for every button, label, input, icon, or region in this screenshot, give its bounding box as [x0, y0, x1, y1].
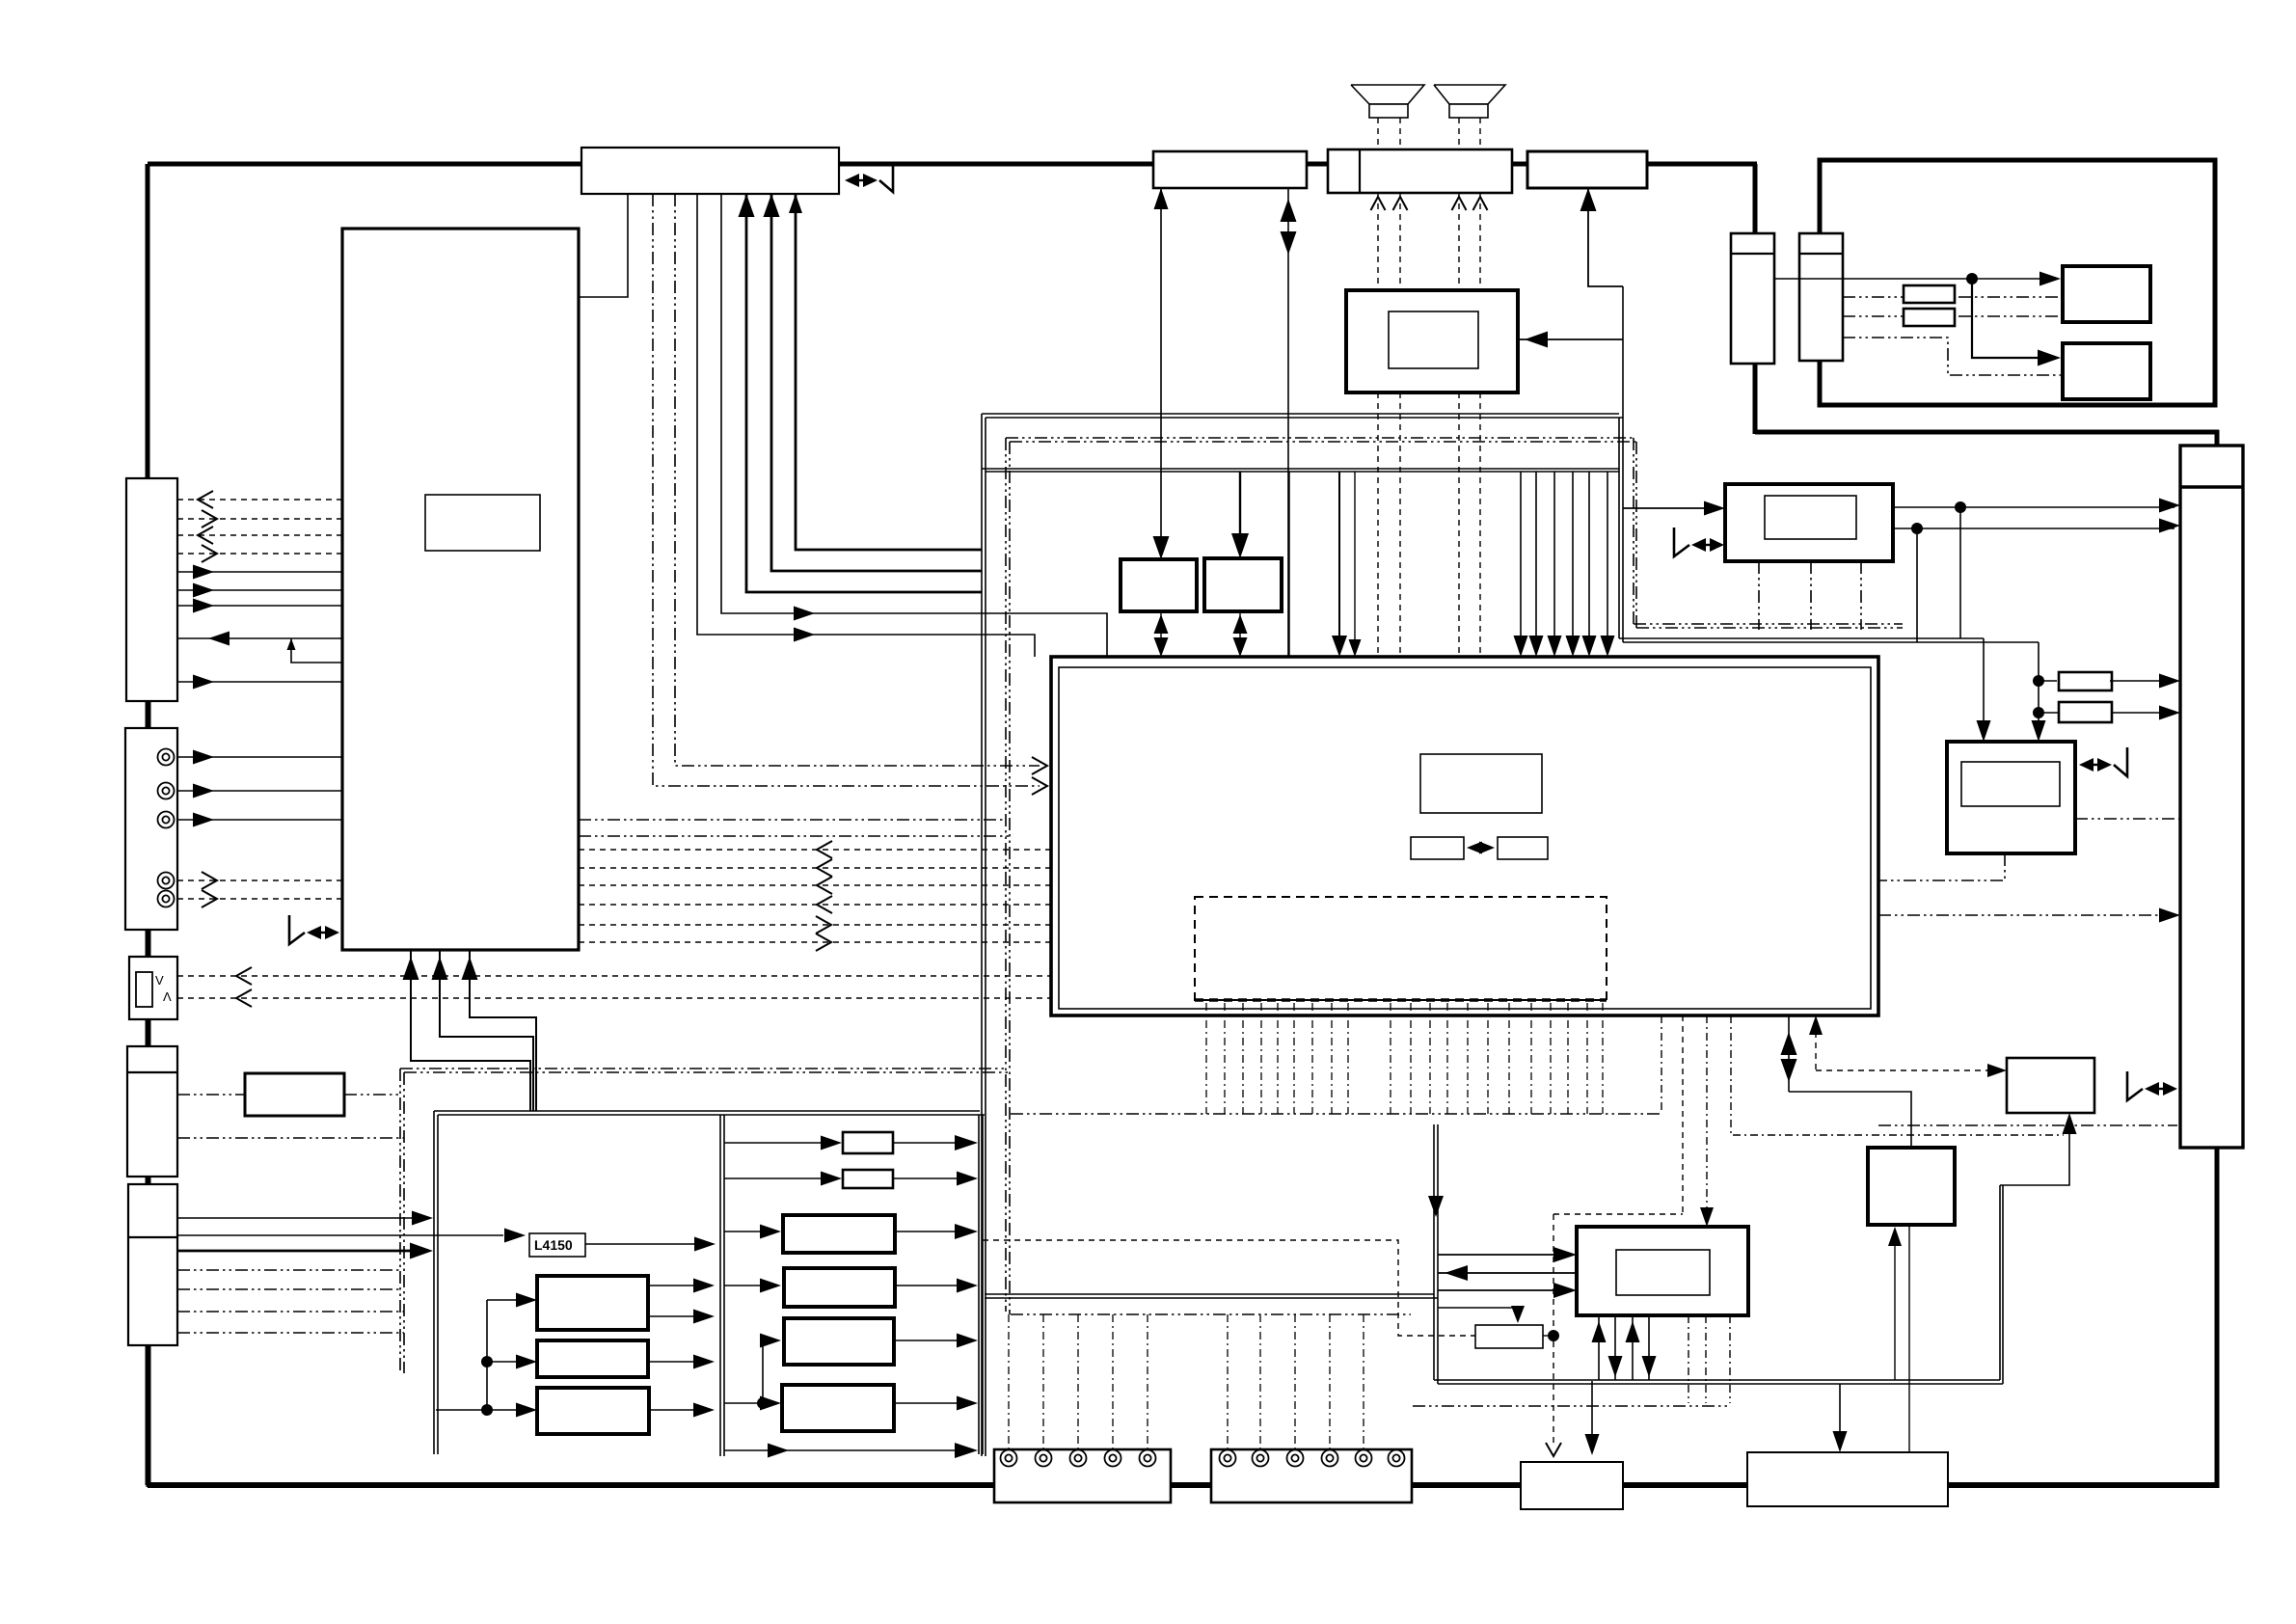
power right bus a — [978, 1115, 980, 1454]
arrow into box E — [1704, 501, 1725, 516]
power section top b — [438, 1114, 985, 1116]
sound bus pair b — [1437, 1124, 1439, 1384]
main IC inner — [1059, 667, 1871, 1009]
wire into U6 right — [1518, 338, 1623, 340]
arrow into r1 — [821, 1136, 842, 1150]
arrow up into U3 — [1154, 188, 1169, 209]
dot E out 2 — [1911, 523, 1923, 534]
IC pin drop 1483 — [1429, 1003, 1431, 1114]
solid bus vertical 1683 — [1622, 286, 1624, 642]
open arrow y938 — [817, 896, 832, 913]
arrow into mD — [760, 1396, 781, 1411]
TB2 terminal 6 — [1389, 1450, 1405, 1467]
terminal drop left 1118 — [1077, 1314, 1079, 1449]
box D — [2063, 343, 2150, 399]
drop 1667 into main box — [1607, 472, 1608, 650]
amp riser a — [1999, 1185, 2001, 1380]
main IC dashed subrect — [1195, 897, 1607, 1000]
open arrow y959 — [816, 916, 831, 934]
dashed riser H — [1816, 1069, 2000, 1071]
power section top a — [434, 1110, 980, 1112]
arrow 1389 into main box — [1332, 636, 1347, 657]
J-rail arrow 1 — [1598, 1315, 1600, 1380]
dashed K2 to dot — [1543, 1335, 1553, 1337]
open arrow up a — [1371, 197, 1386, 210]
connector CN2 — [125, 728, 177, 930]
small rect R2 — [1904, 309, 1955, 326]
F2 arrows — [1233, 614, 1248, 634]
wire U3 down 2 with double arrow — [1287, 188, 1289, 657]
svg-text:L4150: L4150 — [534, 1237, 573, 1253]
thick drop 1389 — [1338, 472, 1340, 650]
outer frame bottom edge — [148, 1482, 2219, 1488]
dashed vert to L — [1553, 1214, 1554, 1447]
arrow 662 left — [208, 632, 230, 646]
TB2 terminal 4 — [1322, 1450, 1338, 1467]
open arrow y918 — [817, 877, 832, 894]
frame gap CN3-CN4 — [147, 1177, 151, 1184]
CN2 terminal 4 — [158, 873, 175, 889]
G feed rail lower — [1623, 641, 2039, 643]
open arrow up d — [1473, 197, 1488, 210]
arrow up into U1 pin8 — [789, 194, 802, 213]
CN2 terminal 2 — [158, 783, 175, 799]
wire U1 pin5 — [721, 194, 1107, 657]
dashed subrect bottom heavy — [1195, 998, 1607, 1002]
arrow into mC — [760, 1334, 781, 1348]
arrow into box C — [2039, 272, 2061, 286]
F2 dashdot updown — [1239, 611, 1241, 654]
box U1 top-left control — [581, 148, 839, 194]
frame below CN4 — [147, 1345, 151, 1487]
dashdot left horiz b — [579, 835, 1010, 837]
TB1 terminal 1 — [1001, 1450, 1017, 1467]
drop 1577 into main box — [1520, 472, 1522, 650]
speaker SP1 horn — [1351, 85, 1424, 104]
dashed drops below box5 c — [1458, 392, 1460, 657]
small box K2 — [1475, 1325, 1543, 1348]
regulator mC — [784, 1318, 894, 1365]
mD out — [894, 1402, 972, 1404]
resistor R3 — [2059, 672, 2112, 690]
CN2 terminal 3 — [158, 812, 175, 828]
TB2 terminal 2 — [1253, 1450, 1269, 1467]
CN3 divider — [127, 1071, 177, 1073]
dot mD — [757, 1397, 769, 1409]
power section left a — [433, 1111, 435, 1454]
adjust symbol at U1 right — [845, 174, 859, 187]
box E — [1725, 484, 1893, 561]
IC pin drop 1608 — [1550, 1003, 1552, 1114]
arrow 612 — [193, 583, 214, 598]
regulator r1 — [843, 1132, 893, 1153]
IC pin drop 1662 — [1602, 1003, 1604, 1114]
arrow up into U1 pin7 — [764, 194, 780, 217]
terminal drop left 1190 — [1147, 1314, 1148, 1449]
arrow E out 2 — [2159, 519, 2180, 533]
outer frame right horizontal — [1755, 430, 2219, 435]
dashdot left horiz a — [579, 819, 1006, 821]
PS1 out a — [648, 1285, 708, 1286]
vertical bus 1022 — [985, 418, 986, 1456]
box U3 key input — [1153, 151, 1307, 188]
updown arrow up — [1781, 1032, 1797, 1055]
box G inner — [1961, 762, 2060, 806]
arrow 1297 — [410, 1243, 433, 1259]
frame gap CN2-VA — [147, 930, 151, 957]
dashdot pair horiz b — [404, 1071, 1009, 1073]
power box PS3 — [537, 1388, 649, 1434]
thin drop 1405 — [1354, 472, 1356, 650]
open arrow up b — [1393, 197, 1408, 210]
tuner box B — [1799, 233, 1843, 361]
CN4 divider — [128, 1236, 177, 1238]
frame gap VA-CN3 — [147, 1019, 151, 1046]
CN4 wire 1 — [177, 1217, 426, 1219]
dashdot pair vert a — [1633, 438, 1634, 624]
rail 486 — [982, 468, 1619, 470]
connector CN4 — [128, 1184, 177, 1345]
dashed bus line y918 — [579, 884, 1051, 886]
wire to amp 1 — [1438, 1254, 1570, 1256]
U2 inner label rect — [425, 495, 540, 551]
speaker SP2 body — [1449, 104, 1488, 118]
dashdot pair horiz a — [400, 1068, 1005, 1069]
arrow into mB — [760, 1279, 781, 1293]
IC pin drop 1398 — [1347, 1003, 1349, 1114]
arrow PS2 — [693, 1355, 715, 1369]
IC pin drop 1342 — [1293, 1003, 1295, 1114]
arrow 1405 into main box — [1349, 639, 1362, 657]
thin drop 1337 — [1288, 472, 1290, 657]
TB1 terminal 5 — [1140, 1450, 1156, 1467]
dashed drops below box5 b — [1399, 392, 1401, 657]
arrow 820 — [193, 784, 214, 798]
sensor box VA — [129, 957, 177, 1019]
open arrow y881 — [817, 841, 832, 858]
J below dashdot 1 — [1688, 1315, 1689, 1403]
dashed bus line y900 — [579, 867, 1051, 869]
svg-text:V: V — [155, 973, 164, 988]
dashdot bus A — [1011, 1113, 1661, 1115]
terminal drop right 1343 — [1294, 1314, 1296, 1449]
open arrow left 555 — [198, 527, 213, 544]
box G dashdot bottom — [1878, 853, 2005, 880]
wire CN2 b — [177, 790, 342, 792]
arrow 593 — [193, 565, 214, 580]
open arrow into L — [1546, 1443, 1561, 1456]
arrow mA out — [955, 1224, 978, 1239]
arrow R3 to bus — [2159, 674, 2180, 689]
dot E out 1 — [1955, 501, 1966, 513]
CN4 dashdot 2 — [177, 1288, 400, 1290]
connector CN3 — [127, 1046, 177, 1177]
dashdot pair vertical a — [399, 1069, 401, 1373]
r1 out — [893, 1142, 972, 1144]
IC pin drop 1270 — [1224, 1003, 1226, 1114]
arrow up into U5 — [1580, 188, 1597, 211]
arrowhead on wire 636 — [794, 607, 815, 621]
box L wire — [1591, 1381, 1593, 1448]
box M wire — [1839, 1384, 1841, 1446]
CN4 wire L4150 — [177, 1234, 503, 1236]
wire from amp 2 — [1438, 1272, 1577, 1274]
arrow into box H left — [1987, 1064, 2007, 1077]
terminal drop right 1307 — [1259, 1314, 1261, 1449]
arrow into mA — [760, 1225, 781, 1239]
wire CN1 s2 — [177, 589, 342, 591]
box G dashdot right — [2075, 818, 2179, 820]
J-rail arrow 2 — [1614, 1315, 1616, 1380]
arrow into PS1 — [516, 1293, 537, 1308]
box U5 right of speakers — [1527, 151, 1647, 188]
TB2 terminal 3 — [1287, 1450, 1304, 1467]
J-rail arrow 4 — [1648, 1315, 1650, 1380]
dashdot bus B — [1011, 1313, 1411, 1315]
frame stub above CN9 — [2215, 430, 2220, 447]
open arrow y977 — [816, 934, 831, 951]
branch jog to 687 — [291, 638, 342, 663]
CN3 dashdot lower — [177, 1137, 404, 1139]
wire to K2 — [1438, 1308, 1518, 1317]
rail 433 — [986, 417, 1623, 419]
IC pin drop 1251 — [1205, 1003, 1207, 1114]
arrow 1648 — [1582, 636, 1597, 657]
dot R4 feed — [2033, 707, 2044, 718]
speaker SP1 body — [1369, 104, 1408, 118]
arrow dashdot 949 — [2159, 908, 2180, 923]
power-sound rail b — [985, 1297, 1438, 1299]
box K line dashdot right — [344, 1094, 400, 1096]
mC out — [894, 1340, 972, 1341]
frame below CN9 — [2215, 1148, 2220, 1488]
VA dashed out 2 — [177, 997, 1051, 999]
L4150 box — [529, 1233, 585, 1257]
open arrow into main IC at 794 — [1032, 757, 1047, 774]
wire CN1 s5 — [177, 681, 342, 683]
arrow into L4150 — [504, 1229, 526, 1243]
wire CN1 dashed 3 — [177, 534, 342, 536]
CN2 terminal 5 — [158, 891, 175, 907]
IC pin drop 1543 — [1487, 1003, 1489, 1114]
wire CN1 s3 — [177, 605, 342, 607]
small arrow up at branch — [287, 638, 296, 650]
dashed riser H vert — [1815, 1021, 1817, 1070]
double arrow down — [1281, 231, 1297, 255]
tuner A divider — [1731, 253, 1774, 255]
CN4 dashdot 3 — [177, 1311, 404, 1313]
drop 1631 into main box — [1572, 472, 1574, 650]
arrow into U6 — [1525, 332, 1548, 348]
F1 arrows — [1154, 614, 1169, 634]
terminal drop right 1414 — [1363, 1314, 1364, 1449]
bidir arrows between — [1467, 842, 1482, 854]
IC pin drop 1501 — [1446, 1003, 1448, 1114]
TB2 terminal 1 — [1220, 1450, 1236, 1467]
open arrow up c — [1452, 197, 1467, 210]
U4 divider — [1359, 149, 1361, 193]
wire to R3 — [2039, 680, 2057, 682]
arrow into G top b — [2032, 720, 2046, 742]
wire A-B-C — [1774, 278, 2055, 280]
arrow mB out — [957, 1279, 978, 1293]
wire CN2 d dashed — [177, 880, 342, 881]
IC pin drop 1289 — [1242, 1003, 1244, 1114]
box U4 speaker driver — [1328, 149, 1512, 193]
dashed feed from bus — [983, 1240, 1475, 1336]
U2 bottom wire 1 — [411, 950, 530, 1111]
arrow 1593 — [1529, 636, 1544, 657]
arrowhead on wire 658 — [794, 628, 815, 642]
regulator r2 — [843, 1170, 893, 1188]
main left IC U2 — [342, 229, 579, 950]
wire into box E — [1623, 507, 1718, 509]
power box PS2 — [537, 1340, 648, 1377]
wire U3 down long — [1160, 188, 1162, 554]
outer frame top edge — [148, 162, 1757, 167]
dashed bus line y977 — [579, 941, 1051, 943]
arrow into J top — [1700, 1207, 1714, 1227]
arrow into box M — [1833, 1431, 1848, 1452]
vertical bus 1018 — [981, 414, 983, 1456]
wire U1 dashdot B — [675, 194, 1040, 766]
IC pin drop 1646 — [1586, 1003, 1588, 1114]
dashdot pair low horiz a — [1634, 623, 1903, 625]
wire up into box I — [1894, 1232, 1896, 1380]
TB1 terminal 4 — [1105, 1450, 1121, 1467]
dashdot pair vertical down — [1005, 438, 1007, 1312]
box I — [1868, 1148, 1955, 1225]
adjust symbol CN9 — [2127, 1071, 2143, 1100]
resistor R4 — [2059, 702, 2112, 722]
arrow into amp 3 — [1553, 1283, 1577, 1298]
arrow 785 — [193, 750, 214, 765]
G feed drop 2057 — [1983, 638, 1985, 735]
J below dashdot 3 — [1729, 1315, 1731, 1403]
U2 bottom wire 2 — [440, 950, 533, 1111]
open arrow 932 — [202, 890, 217, 907]
dashdot into tall connector — [1878, 914, 2173, 916]
IC pin drop 1308 — [1260, 1003, 1262, 1114]
arrow 850 — [193, 813, 214, 827]
regulator mA — [783, 1215, 895, 1253]
main IC small rect R — [1498, 837, 1548, 859]
box E dashdot drop b — [1810, 561, 1812, 630]
PS3 out — [649, 1409, 708, 1411]
right connector CN9 — [2180, 446, 2243, 1148]
main IC updown wire — [1789, 1092, 1911, 1148]
amp riser top elbow — [2000, 1119, 2069, 1185]
arrow 1612 — [1548, 636, 1562, 657]
U4 dashed drop b — [1399, 193, 1401, 290]
arrow into amp 1 — [1553, 1247, 1577, 1262]
mC feed jog — [763, 1340, 774, 1403]
regulator mD — [782, 1385, 894, 1431]
terminal drop right 1273 — [1227, 1314, 1229, 1449]
box G — [1947, 742, 2075, 853]
wire CN1 s1 — [177, 571, 342, 573]
dashed horiz 1259 — [1553, 1213, 1683, 1215]
wire CN1 dashed 2 — [177, 518, 342, 520]
R3 out — [2110, 680, 2173, 682]
arrow up into box H — [2063, 1113, 2077, 1134]
CN4 dashdot 1 — [177, 1269, 400, 1271]
terminal drop left 1154 — [1112, 1314, 1114, 1449]
arrow r1 out — [955, 1135, 978, 1150]
box F1 — [1121, 559, 1197, 611]
dashdot bus C — [1413, 1405, 1730, 1407]
power section left b — [437, 1115, 439, 1454]
reg line r2 — [724, 1177, 835, 1179]
wire to PS3 — [487, 1409, 530, 1411]
wire U1 pin7 thick — [771, 194, 982, 571]
box E out 2 — [1893, 528, 2174, 529]
dashed bus line y959 — [579, 924, 1051, 926]
dashed drops below box5 d — [1479, 392, 1481, 657]
box C — [2063, 266, 2150, 322]
drop to F2 — [1239, 472, 1241, 552]
solid bus vertical 1679 — [1618, 418, 1620, 638]
open arrow y900 — [817, 859, 832, 877]
regulator mB — [784, 1268, 895, 1307]
svg-text:Λ: Λ — [163, 989, 172, 1004]
box U6 headphone — [1346, 290, 1518, 392]
box K line dashdot left — [177, 1094, 245, 1096]
wire U1 pin1 down-left — [579, 194, 628, 297]
wire to amp 3 — [1438, 1289, 1570, 1291]
arrow into PS2 — [516, 1355, 537, 1369]
IC pin drop 1361 — [1311, 1003, 1313, 1114]
box E dashdot drop c — [1860, 561, 1862, 630]
flow arrow on pair — [1428, 1196, 1444, 1217]
TB1 terminal 2 — [1036, 1450, 1052, 1467]
open arrow right 538 — [202, 510, 217, 528]
open arrow into main IC at 815 — [1032, 777, 1047, 795]
arrow PS3 — [693, 1403, 715, 1418]
amp rail b — [1438, 1383, 2003, 1385]
adjust symbol box G — [2079, 758, 2093, 771]
J below dashdot 2 — [1705, 1315, 1707, 1403]
dashdot pair right horiz b — [1010, 441, 1636, 443]
dashed bus line y938 — [579, 904, 1051, 906]
terminal strip TB2 — [1211, 1449, 1412, 1502]
wire CN1 dashed 1 — [177, 499, 342, 501]
wire U1 pin6 thick — [746, 194, 982, 592]
PS1 out b — [648, 1315, 708, 1317]
power feed riser — [486, 1300, 488, 1410]
U6 inner rect — [1389, 311, 1478, 368]
IC pin drop 1522 — [1467, 1003, 1469, 1114]
dashdot low 1167 — [1878, 1124, 2177, 1126]
power feed vertical — [436, 1409, 487, 1411]
arrow into K2 — [1511, 1306, 1525, 1323]
SP2 dashed b — [1479, 118, 1481, 149]
box F2 — [1204, 558, 1282, 611]
dashdot pair low horiz b — [1636, 627, 1903, 629]
arrow 1263 — [412, 1211, 433, 1226]
arrow into F2 — [1231, 533, 1249, 558]
arrow 1667 — [1601, 636, 1615, 657]
arrow L4150 to bus — [694, 1237, 716, 1252]
arrow into F1 — [1153, 536, 1170, 559]
dot K2 — [1548, 1330, 1559, 1341]
arrow mD out — [957, 1396, 978, 1411]
reg line mA — [724, 1231, 774, 1232]
rail 489 — [986, 471, 1619, 473]
terminal drop left 1082 — [1042, 1314, 1044, 1449]
arrow up into main IC — [1809, 1015, 1823, 1035]
drop 1593 into main box — [1535, 472, 1537, 650]
